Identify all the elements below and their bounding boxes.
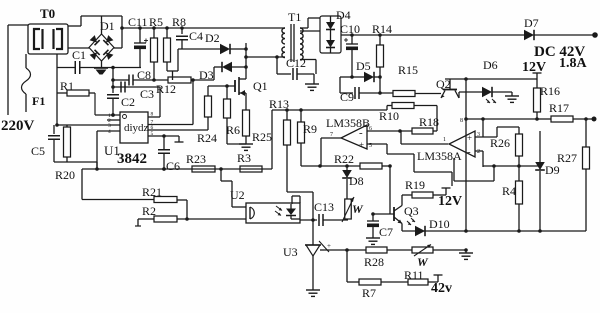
wire C5 R20 bottom <box>54 162 97 169</box>
svg-text:12V: 12V <box>438 194 462 209</box>
resistor R1 <box>57 79 95 115</box>
resistor R22 <box>320 152 392 169</box>
svg-text:R22: R22 <box>334 152 354 166</box>
terminal 42v fb <box>431 275 452 296</box>
diode D10 <box>407 217 450 236</box>
wire C2 column <box>111 67 115 93</box>
svg-text:R5: R5 <box>149 15 163 29</box>
svg-text:LM358B: LM358B <box>326 116 370 130</box>
resistor R4 <box>502 166 523 231</box>
diode D5 <box>352 59 380 82</box>
svg-text:R28: R28 <box>364 255 384 269</box>
wire 12Vb rail <box>464 117 537 121</box>
svg-text:C7: C7 <box>379 225 393 239</box>
svg-text:R18: R18 <box>419 115 439 129</box>
resistor R18 <box>412 115 439 134</box>
shunt reg U3 <box>283 220 331 290</box>
wire R12 to D3 <box>191 67 214 125</box>
svg-text:12V: 12V <box>522 60 546 75</box>
wire bridge top <box>101 16 103 34</box>
svg-text:R10: R10 <box>379 109 399 123</box>
svg-text:W: W <box>352 202 364 216</box>
potentiometer W2 <box>412 245 433 270</box>
label 1.8A <box>559 56 588 71</box>
U1 right pin wires <box>148 112 208 138</box>
resistor R7 <box>347 279 408 300</box>
svg-text:D9: D9 <box>545 163 560 177</box>
diode D6 <box>459 58 512 103</box>
svg-text:Q3: Q3 <box>404 204 419 218</box>
wire A noninv <box>475 119 497 137</box>
svg-text:+: + <box>467 133 472 143</box>
wire Q3 base <box>371 212 394 216</box>
rail 42V <box>341 33 595 37</box>
svg-text:42v: 42v <box>431 281 452 296</box>
ground sense <box>459 250 473 259</box>
resistor R5 <box>149 15 163 82</box>
potentiometer W1 <box>342 197 364 222</box>
diode D9 <box>535 131 559 231</box>
capacitor C12 <box>277 56 314 80</box>
svg-text:C8: C8 <box>137 68 151 82</box>
wire opto led notch <box>292 196 300 204</box>
svg-text:C3: C3 <box>140 87 154 101</box>
terminal 12V top <box>522 60 546 79</box>
svg-text:W: W <box>417 255 429 269</box>
svg-text:C13: C13 <box>314 200 334 214</box>
wire fb left drop <box>271 110 273 169</box>
resistor R26 <box>490 127 523 166</box>
terminal 42V out <box>592 32 598 38</box>
capacitor C2 <box>107 95 135 117</box>
wire C3 to U1 pin8 <box>159 87 161 117</box>
diode D2 <box>205 31 230 54</box>
svg-text:D8: D8 <box>349 174 364 188</box>
wire T0 secondary bottom <box>56 54 58 125</box>
capacitor C9 <box>340 87 393 104</box>
diode D3 <box>199 62 246 82</box>
wire B noninv path <box>367 144 452 186</box>
svg-text:R19: R19 <box>405 178 425 192</box>
wire R10 drop <box>433 106 437 132</box>
resistor R8 <box>164 15 187 80</box>
svg-text:C11: C11 <box>128 15 148 29</box>
svg-text:R6: R6 <box>226 123 240 137</box>
terminal R17 out <box>592 117 597 122</box>
svg-text:R11: R11 <box>404 268 424 282</box>
svg-text:R1: R1 <box>60 79 74 93</box>
transistor Q3 <box>394 195 419 231</box>
svg-text:diydz: diydz <box>124 122 149 134</box>
resistor R11 <box>404 268 438 285</box>
transformer T1 <box>282 10 303 62</box>
svg-text:220V: 220V <box>1 118 35 134</box>
resistor R16 <box>534 79 561 121</box>
svg-text:R9: R9 <box>303 122 317 136</box>
svg-text:8: 8 <box>460 118 463 124</box>
svg-text:F1: F1 <box>32 94 45 108</box>
svg-text:1: 1 <box>443 137 446 143</box>
svg-text:D4: D4 <box>336 8 351 22</box>
svg-text:LM358A: LM358A <box>417 149 462 163</box>
wire D5 line <box>340 75 354 93</box>
ground C12 <box>305 74 319 90</box>
ground C7 <box>366 238 380 244</box>
wire bridge left to T0 <box>68 47 89 49</box>
resistor R21 <box>82 185 187 219</box>
svg-text:C1: C1 <box>72 48 86 62</box>
svg-text:U2: U2 <box>230 188 245 202</box>
svg-text:R4: R4 <box>502 184 516 198</box>
wire B output <box>318 138 341 168</box>
resistor R15 <box>393 63 441 97</box>
svg-text:R25: R25 <box>252 130 272 144</box>
svg-text:C9: C9 <box>340 90 354 104</box>
resistor R3 <box>237 151 262 172</box>
svg-text:R23: R23 <box>186 152 206 166</box>
svg-text:8: 8 <box>151 112 154 118</box>
transformer T0 <box>28 6 68 54</box>
op-amp U-LM358B <box>326 116 372 150</box>
svg-text:1.8A: 1.8A <box>559 56 588 71</box>
wire A inv <box>475 151 483 167</box>
wire step to opto <box>221 169 246 207</box>
svg-text:C10: C10 <box>340 22 360 36</box>
svg-text:2: 2 <box>477 149 480 155</box>
resistor R2 <box>135 204 246 226</box>
wire D10 rail <box>402 229 586 233</box>
U1 left pin wires <box>55 113 120 135</box>
resistor R14 <box>372 22 392 95</box>
resistor R24 <box>197 86 217 145</box>
svg-text:4: 4 <box>108 129 111 135</box>
svg-text:D2: D2 <box>205 31 220 45</box>
wire U1 pin4 loop <box>95 131 99 171</box>
rectifier D4 <box>300 8 351 53</box>
svg-text:R16: R16 <box>540 84 560 98</box>
svg-text:D6: D6 <box>483 58 498 72</box>
resistor R25 <box>243 110 273 144</box>
bridge rectifier D1 <box>89 19 115 61</box>
diode D7 <box>524 16 539 40</box>
ground R25 <box>239 144 253 150</box>
svg-text:Q1: Q1 <box>253 79 268 93</box>
fuse F1 <box>22 54 46 112</box>
svg-text:R26: R26 <box>490 136 510 150</box>
resistor R20 <box>55 125 75 182</box>
resistor R17 <box>537 101 594 122</box>
wire R13 to opto <box>287 145 315 222</box>
wire R9 to output node <box>301 143 320 166</box>
svg-text:R14: R14 <box>372 22 392 36</box>
capacitor C4 <box>176 28 203 49</box>
wire bridge bottom <box>80 61 141 69</box>
capacitor C5 <box>31 125 60 162</box>
svg-text:R12: R12 <box>156 82 176 96</box>
capacitor C10 <box>340 22 360 77</box>
resistor R10 <box>379 103 437 124</box>
svg-text:C5: C5 <box>31 144 45 158</box>
wire R7 column <box>346 250 348 282</box>
svg-text:D1: D1 <box>100 19 115 33</box>
svg-text:R13: R13 <box>269 97 289 111</box>
terminal mark U1 pin5 <box>175 136 184 142</box>
svg-text:+: + <box>359 140 364 150</box>
wire fb line <box>272 106 387 112</box>
capacitor C11 <box>128 15 148 68</box>
resistor R9 <box>298 110 318 143</box>
wire Q1 source <box>245 93 247 110</box>
svg-text:5: 5 <box>151 131 154 137</box>
wire Q1 gate line <box>208 84 235 88</box>
diode D8 <box>342 164 363 199</box>
resistor R27 <box>557 147 590 169</box>
wire opamp A out <box>401 131 448 144</box>
wire Q3 drive <box>389 166 391 214</box>
wire primary bottom rail <box>82 167 272 199</box>
label 220V <box>1 118 35 134</box>
resistor R6 <box>224 86 247 144</box>
svg-text:R20: R20 <box>55 168 75 182</box>
capacitor C6 <box>158 136 180 173</box>
wire T1 sec top <box>300 18 320 28</box>
wire sense line <box>324 248 468 252</box>
wire B inv line <box>367 129 412 133</box>
wire A fb box <box>454 158 540 181</box>
svg-text:C6: C6 <box>166 159 180 173</box>
resistor R28 <box>364 247 387 269</box>
ground U3 <box>306 290 320 296</box>
svg-text:3842: 3842 <box>117 151 147 167</box>
svg-text:+: + <box>327 242 331 250</box>
svg-text:C4: C4 <box>189 29 203 43</box>
capacitor C1 <box>57 48 86 74</box>
svg-text:D10: D10 <box>429 217 450 231</box>
svg-text:R8: R8 <box>172 15 186 29</box>
capacitor C7 <box>367 214 393 239</box>
resistor R12 <box>156 77 191 96</box>
svg-text:R17: R17 <box>549 101 569 115</box>
resistor R13 <box>269 97 291 145</box>
wire T1 primary bottom <box>246 55 283 74</box>
svg-text:D3: D3 <box>199 68 214 82</box>
svg-text:R24: R24 <box>197 131 217 145</box>
svg-text:R7: R7 <box>362 286 376 300</box>
rail primary top <box>122 26 283 30</box>
wire right edge <box>585 119 587 231</box>
svg-text:R15: R15 <box>398 63 418 77</box>
svg-text:R2: R2 <box>142 204 156 218</box>
ground bridge <box>94 68 108 75</box>
svg-text:C12: C12 <box>286 56 306 70</box>
capacitor C13 <box>300 200 348 226</box>
wire opamp supply <box>460 79 466 231</box>
rail 12V top <box>445 77 537 81</box>
capacitor C3 <box>113 82 160 102</box>
wire D2 line <box>178 48 246 50</box>
wire bridge right to rail <box>114 16 124 48</box>
label DC 42V <box>534 44 585 60</box>
svg-text:U3: U3 <box>283 245 298 259</box>
svg-text:T1: T1 <box>288 10 301 24</box>
op-amp U-LM358A <box>417 131 480 163</box>
svg-text:R27: R27 <box>557 151 577 165</box>
capacitor C8 <box>113 68 168 86</box>
svg-text:D7: D7 <box>524 16 539 30</box>
svg-text:C2: C2 <box>121 95 135 109</box>
svg-text:D5: D5 <box>356 59 371 73</box>
svg-text:R21: R21 <box>142 185 162 199</box>
transistor Q2 <box>436 77 459 98</box>
ground D6 <box>505 92 519 102</box>
wire mains left <box>8 25 28 115</box>
wire T0 secondary top <box>68 16 122 26</box>
optocoupler U2 <box>230 188 300 223</box>
terminal 12V mid <box>438 188 462 209</box>
wire T1 sec bottom <box>300 60 316 75</box>
node Q1 drain column <box>244 43 248 79</box>
resistor R23 <box>186 152 215 172</box>
svg-text:R3: R3 <box>237 151 251 165</box>
IC U1 3842 <box>104 112 149 167</box>
resistor R19 <box>402 178 446 198</box>
transistor Q1 <box>235 77 268 96</box>
svg-text:-: - <box>467 146 471 158</box>
svg-text:7: 7 <box>330 132 333 138</box>
svg-text:T0: T0 <box>40 6 55 21</box>
